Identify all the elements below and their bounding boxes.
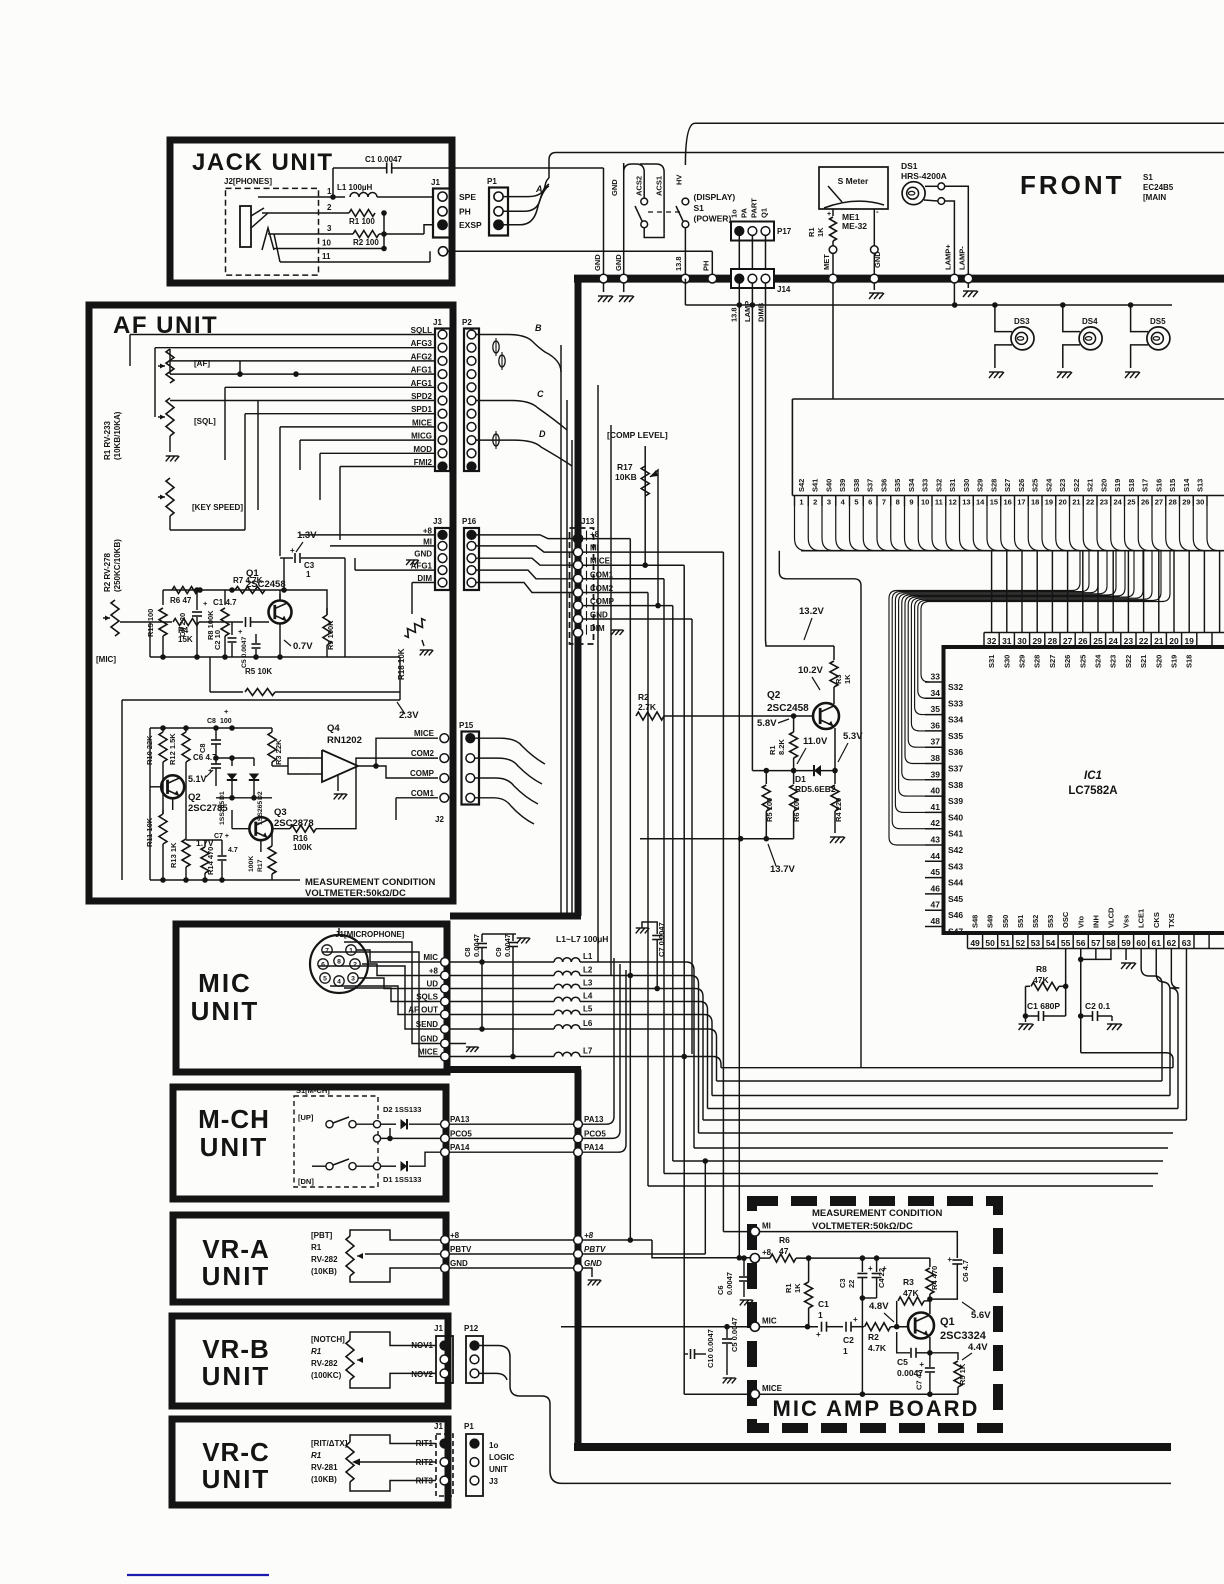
wire jack pin 3 [268, 233, 353, 235]
svg-text:R16: R16 [293, 834, 308, 843]
capacitor C5 0.0047 [252, 643, 261, 645]
resistor R13 1K [182, 839, 190, 867]
wire MI internal [760, 1232, 958, 1258]
svg-text:+: + [224, 707, 229, 716]
svg-text:+8: +8 [450, 1231, 460, 1240]
resistor R6 100 [793, 771, 795, 784]
svg-text:(10KB/10KA): (10KB/10KA) [113, 411, 122, 460]
svg-text:MOD: MOD [413, 445, 432, 454]
svg-text:13.8: 13.8 [730, 307, 739, 322]
svg-text:18: 18 [1031, 498, 1039, 507]
svg-text:22: 22 [847, 1280, 856, 1288]
svg-text:LAMP-: LAMP- [958, 246, 967, 270]
svg-text:11.0V: 11.0V [803, 736, 828, 747]
svg-text:J1[MICROPHONE]: J1[MICROPHONE] [335, 930, 405, 939]
pot AF [166, 349, 174, 383]
FRONT border pins VR-A [574, 1236, 583, 1245]
svg-text:GND: GND [450, 1259, 468, 1268]
unit box AF UNIT [89, 305, 453, 901]
svg-text:S16: S16 [1154, 479, 1163, 492]
wire 2.3V rail [122, 699, 400, 701]
ground symbol meter GND [873, 283, 875, 290]
wire J14 pin3 DIMB down [765, 283, 767, 330]
switch UP [326, 1121, 333, 1128]
svg-text:S22: S22 [1072, 479, 1081, 492]
svg-text:S42: S42 [948, 845, 963, 855]
FRONT board left border upper [575, 275, 582, 916]
svg-text:R1 RV-233: R1 RV-233 [103, 420, 112, 460]
svg-text:S39: S39 [838, 479, 847, 492]
svg-text:S26: S26 [1063, 655, 1072, 668]
svg-text:L1~L7 100µH: L1~L7 100µH [556, 934, 608, 944]
wire COM2 row AF [345, 758, 438, 829]
wire P16 AFG1 to J13 [476, 570, 574, 579]
svg-text:C8: C8 [463, 947, 472, 957]
svg-text:39: 39 [931, 769, 941, 779]
wire PBTV row [583, 1253, 706, 1255]
wire PA14 riser [583, 970, 626, 1152]
svg-text:S19: S19 [1170, 655, 1179, 668]
svg-text:S29: S29 [976, 479, 985, 492]
svg-text:R1: R1 [768, 745, 777, 755]
svg-text:(10KB): (10KB) [311, 1267, 337, 1276]
wire J13 MI [583, 551, 724, 553]
svg-text:R5 1K: R5 1K [958, 1363, 967, 1385]
svg-text:+: + [827, 211, 831, 218]
wire Q3 base [232, 828, 249, 830]
wire bus line 1 [721, 1067, 1173, 1069]
svg-text:GND: GND [414, 550, 432, 559]
wire DIM row [412, 582, 435, 584]
resistor R1 100 [349, 210, 375, 217]
svg-text:C8: C8 [207, 718, 216, 725]
resistor R15 100 [162, 590, 164, 605]
svg-text:2: 2 [813, 498, 817, 507]
svg-text:S27: S27 [1003, 479, 1012, 492]
resistor R4 470 [925, 1257, 930, 1259]
svg-text:OSC: OSC [1061, 911, 1070, 928]
connector J14 restamp [731, 269, 774, 288]
svg-text:S27: S27 [1048, 655, 1057, 668]
svg-text:34: 34 [931, 688, 941, 698]
wire lower top rail [150, 727, 272, 729]
svg-text:1: 1 [799, 498, 803, 507]
svg-text:RIT1: RIT1 [416, 1439, 434, 1448]
wire COM1 column to bus9 [663, 579, 665, 1174]
svg-text:S42: S42 [797, 479, 806, 492]
wire Q1 emitter [929, 1337, 931, 1353]
svg-text:2SC3324: 2SC3324 [940, 1330, 987, 1342]
svg-text:AFG2: AFG2 [411, 352, 433, 361]
unit box JACK UNIT [170, 140, 452, 283]
svg-text:25: 25 [1127, 498, 1135, 507]
svg-text:S50: S50 [1001, 915, 1010, 928]
svg-text:S18: S18 [1185, 655, 1194, 668]
svg-text:R1: R1 [311, 1451, 322, 1460]
svg-text:L1 100µH: L1 100µH [337, 183, 373, 192]
svg-text:1: 1 [818, 1310, 823, 1320]
svg-text:UNIT: UNIT [202, 1261, 271, 1291]
wire +8 row to MIC AMP [583, 1239, 652, 1241]
svg-text:23: 23 [1124, 636, 1134, 646]
ground Q4 [337, 775, 339, 791]
svg-text:P16: P16 [462, 517, 477, 526]
svg-text:S39: S39 [948, 796, 963, 806]
svg-text:R2 RV-278: R2 RV-278 [103, 552, 112, 592]
wire A riser [549, 153, 1224, 179]
svg-text:3: 3 [351, 976, 355, 983]
svg-text:ME-32: ME-32 [842, 221, 867, 231]
svg-text:S25: S25 [1031, 479, 1040, 492]
wire pin10 junction [383, 213, 385, 249]
svg-text:S32: S32 [934, 479, 943, 492]
svg-text:VR-B: VR-B [202, 1334, 270, 1364]
svg-text:61: 61 [1152, 938, 1162, 948]
wires pots to J1 AF [130, 334, 435, 336]
ferrite beads P2 [493, 341, 499, 353]
wire jack pin 10 [274, 248, 384, 250]
transistor Q1 2SC3324 [908, 1313, 934, 1339]
svg-text:C2 10: C2 10 [213, 630, 222, 650]
svg-text:2SC2458: 2SC2458 [246, 579, 286, 590]
wire M-CH common [356, 1123, 373, 1125]
svg-text:C7 47: C7 47 [915, 1370, 924, 1390]
svg-text:59: 59 [1121, 938, 1131, 948]
svg-text:R2: R2 [868, 1332, 879, 1342]
svg-text:PCO5: PCO5 [584, 1129, 606, 1138]
svg-text:[KEY SPEED]: [KEY SPEED] [192, 503, 243, 512]
svg-text:DS4: DS4 [1082, 317, 1098, 326]
svg-text:UNIT: UNIT [191, 996, 260, 1026]
wire Q1 collector [929, 1299, 931, 1314]
svg-text:S31: S31 [987, 655, 996, 668]
wire bus line 3 [712, 1095, 1170, 1097]
ground DIM pin [611, 629, 623, 631]
svg-text:DIM: DIM [417, 574, 432, 583]
ground C8 C9 rail [513, 933, 516, 935]
svg-text:J1: J1 [433, 318, 442, 327]
svg-text:A: A [535, 184, 543, 194]
svg-text:22: 22 [1086, 498, 1094, 507]
wire LCE1 pin 60 arc [1141, 949, 1162, 1082]
wire jack pin 11 [280, 261, 430, 263]
svg-text:L1: L1 [583, 952, 593, 961]
svg-text:S1: S1 [694, 203, 705, 213]
svg-text:PA: PA [740, 208, 749, 218]
wire Q2 base [664, 715, 813, 717]
resistor R3 22K AF [268, 732, 276, 762]
wire Q1 top rail [163, 589, 310, 591]
svg-text:S18: S18 [1127, 479, 1136, 492]
resistor R12 1.5K [182, 732, 190, 762]
wire bus line 4 [708, 1108, 1179, 1110]
svg-text:C5 0.0047: C5 0.0047 [241, 636, 248, 668]
svg-text:11: 11 [322, 252, 331, 261]
svg-text:57: 57 [1091, 938, 1101, 948]
wire +8 column [629, 539, 631, 1240]
svg-text:1: 1 [306, 570, 311, 579]
svg-text:(100KC): (100KC) [311, 1371, 342, 1380]
wire diode rail [216, 757, 254, 759]
svg-text:S40: S40 [824, 479, 833, 492]
display pin curves to bus [795, 506, 807, 551]
wire emitter to R5 [930, 1353, 958, 1360]
connector J2 AF [440, 734, 449, 743]
capacitor C7 47 internal [929, 1353, 931, 1367]
svg-text:L6: L6 [583, 1019, 593, 1028]
svg-text:60: 60 [1136, 938, 1146, 948]
svg-text:R6 47: R6 47 [170, 596, 192, 605]
svg-text:S28: S28 [1033, 655, 1042, 668]
svg-text:Q3: Q3 [274, 807, 287, 818]
svg-text:1: 1 [843, 1346, 848, 1356]
svg-text:J1: J1 [434, 1422, 443, 1431]
svg-text:S21: S21 [1086, 479, 1095, 492]
svg-text:46: 46 [931, 883, 941, 893]
wire bus line 9 [664, 1173, 1158, 1175]
svg-text:UNIT: UNIT [202, 1361, 271, 1391]
svg-text:10: 10 [921, 498, 929, 507]
svg-text:30: 30 [1196, 498, 1204, 507]
svg-text:D1: D1 [219, 791, 226, 800]
ground J3 GND stub [406, 559, 418, 561]
wire PCO5 riser [583, 964, 620, 1138]
dashed switch box S1 M-CH [294, 1096, 378, 1187]
svg-text:S37: S37 [948, 764, 963, 774]
svg-text:+: + [882, 1264, 887, 1273]
svg-text:C1: C1 [818, 1299, 829, 1309]
svg-text:P17: P17 [777, 227, 792, 236]
wire top rail to FRONT [685, 123, 1224, 165]
wire bus line 7 [694, 1147, 1168, 1149]
svg-text:6: 6 [321, 962, 325, 969]
svg-text:MICG: MICG [411, 432, 432, 441]
capacitor C2 10 [231, 622, 233, 635]
unit box M-CH UNIT [173, 1087, 446, 1199]
svg-text:5.6V: 5.6V [971, 1310, 991, 1321]
wire Vto pin 56 [1080, 949, 1082, 1053]
svg-text:C5: C5 [897, 1357, 908, 1367]
svg-text:HV: HV [675, 175, 684, 185]
svg-text:0.0047: 0.0047 [503, 934, 512, 957]
svg-text:VOLTMETER:50kΩ/DC: VOLTMETER:50kΩ/DC [812, 1221, 913, 1232]
svg-text:AFG3: AFG3 [411, 339, 433, 348]
wire bus line 6 [699, 1132, 1174, 1134]
svg-text:15: 15 [990, 498, 998, 507]
wire 13.8 column J14pin1 [738, 305, 740, 1258]
svg-text:R17: R17 [257, 859, 264, 872]
wire P16 DIM to J13 [476, 583, 574, 593]
IC1 top pin cells 32-19 [984, 632, 1224, 634]
svg-text:S45: S45 [948, 894, 963, 904]
svg-text:LC7582A: LC7582A [1068, 785, 1117, 797]
wire L2 to bus6 [580, 976, 699, 1134]
svg-text:SPD1: SPD1 [411, 405, 432, 414]
svg-text:44: 44 [931, 851, 941, 861]
svg-text:25: 25 [1093, 636, 1103, 646]
connector J1 jack [433, 189, 452, 238]
svg-text:43: 43 [931, 835, 941, 845]
M-CH unit pins [441, 1120, 450, 1129]
wire P12 NOV1 out [479, 1346, 1171, 1484]
resistor R1 8.2K [793, 716, 795, 732]
svg-text:S14: S14 [1182, 478, 1191, 492]
svg-text:J13: J13 [581, 517, 595, 526]
svg-text:R3: R3 [903, 1277, 914, 1287]
svg-text:+: + [919, 1360, 924, 1369]
svg-text:C1 680P: C1 680P [1027, 1001, 1060, 1011]
svg-text:EC24B5: EC24B5 [1143, 183, 1174, 192]
wire DS1 to LAMP+ [945, 201, 955, 274]
wire corridor line 611 [610, 425, 612, 976]
svg-text:Q1: Q1 [940, 1316, 955, 1328]
wire rail feeding ACS switches [624, 164, 645, 198]
FRONT border pins PA13 PCO5 PA14 [574, 1120, 583, 1129]
svg-text:1: 1 [349, 948, 353, 955]
svg-text:R3 22K: R3 22K [274, 739, 283, 765]
svg-text:4.7K: 4.7K [868, 1343, 887, 1353]
svg-text:+: + [853, 1315, 858, 1324]
feedthrough circle EXSP [438, 247, 447, 256]
svg-text:S23: S23 [1109, 655, 1118, 668]
capacitor C6 4.7 internal [952, 1259, 962, 1261]
svg-text:S25: S25 [1078, 655, 1087, 668]
svg-text:R18 10K: R18 10K [397, 648, 406, 680]
svg-text:MEASUREMENT CONDITION: MEASUREMENT CONDITION [812, 1208, 943, 1219]
svg-text:R1 100: R1 100 [349, 217, 375, 226]
svg-text:S41: S41 [948, 829, 963, 839]
svg-text:PART: PART [750, 198, 759, 218]
connector J14 [731, 269, 774, 288]
svg-text:AFG1: AFG1 [411, 366, 433, 375]
resistor R2 100 [353, 231, 379, 238]
resistor R1 1K meter [832, 209, 834, 216]
svg-text:RIT3: RIT3 [416, 1477, 434, 1486]
svg-text:Q2: Q2 [767, 690, 781, 701]
svg-text:S26: S26 [1017, 479, 1026, 492]
switch ACS1 bracket [644, 228, 664, 238]
wire J13 COMP [583, 605, 673, 607]
svg-text:LCE1: LCE1 [1137, 909, 1146, 928]
svg-text:26: 26 [1141, 498, 1149, 507]
svg-text:CKS: CKS [1152, 912, 1161, 928]
switch ACS2 [641, 198, 648, 205]
svg-text:51: 51 [1001, 938, 1011, 948]
svg-text:28: 28 [1168, 498, 1176, 507]
svg-text:2: 2 [327, 203, 332, 212]
svg-text:R9 100K: R9 100K [326, 620, 335, 650]
wire P16 GND to J13 [476, 558, 574, 565]
svg-text:C8: C8 [198, 743, 207, 753]
svg-text:AFG1: AFG1 [411, 562, 433, 571]
svg-text:L3: L3 [583, 979, 593, 988]
svg-text:+: + [203, 599, 208, 608]
svg-text:GND: GND [590, 611, 608, 620]
wire bundle A from P1 [503, 178, 549, 197]
svg-text:C7 +: C7 + [214, 833, 229, 840]
svg-text:MIC: MIC [762, 1317, 777, 1326]
svg-text:RN1202: RN1202 [327, 735, 362, 746]
svg-text:MI: MI [423, 537, 432, 546]
wire J14 pin2 down [751, 283, 753, 305]
svg-text:23: 23 [1100, 498, 1108, 507]
svg-text:ACS1: ACS1 [655, 176, 664, 196]
svg-text:R8: R8 [1036, 964, 1047, 974]
svg-text:29: 29 [1032, 636, 1042, 646]
svg-text:63: 63 [1182, 938, 1192, 948]
ground symbol GND1 below bus [603, 283, 605, 292]
display pin row 1-29 [792, 495, 1224, 497]
svg-text:54: 54 [1046, 938, 1056, 948]
svg-text:27: 27 [1063, 636, 1073, 646]
ground Vss pin 59 [1125, 949, 1127, 961]
svg-text:AFG1: AFG1 [411, 379, 433, 388]
pot MIC [111, 600, 119, 636]
wire D out [476, 440, 572, 466]
svg-text:MICE: MICE [762, 1384, 783, 1393]
svg-text:14: 14 [976, 498, 985, 507]
unit box VR-B UNIT [172, 1316, 448, 1406]
switch S1 POWER [682, 198, 689, 205]
svg-text:S37: S37 [866, 479, 875, 492]
svg-text:R13 1K: R13 1K [169, 842, 178, 868]
svg-text:4.4V: 4.4V [968, 1342, 988, 1353]
svg-text:C1 4.7: C1 4.7 [213, 598, 237, 607]
svg-text:S44: S44 [948, 878, 963, 888]
svg-text:NOV2: NOV2 [411, 1370, 433, 1379]
diode D1 RD5.6EB2 [814, 765, 821, 776]
svg-text:COM2: COM2 [411, 749, 435, 758]
svg-text:LAMP+: LAMP+ [944, 244, 953, 270]
svg-text:5: 5 [854, 498, 858, 507]
switch DN [326, 1163, 333, 1170]
transistor Q2 2SC2458 [833, 687, 835, 704]
wire MI row AF [330, 545, 435, 547]
wire PA13 riser [583, 958, 614, 1124]
svg-text:45: 45 [931, 867, 941, 877]
svg-text:S Meter: S Meter [838, 176, 869, 186]
svg-text:48: 48 [931, 916, 941, 926]
svg-text:Q2: Q2 [188, 792, 201, 803]
resistor R16 100K [272, 828, 290, 830]
wire GND2 vertical [623, 163, 625, 274]
wire MIC internal [805, 1324, 811, 1330]
svg-text:R10 22K: R10 22K [145, 735, 154, 765]
svg-text:0.0047: 0.0047 [725, 1272, 734, 1295]
svg-text:PH: PH [459, 207, 471, 217]
svg-text:29: 29 [1182, 498, 1190, 507]
unit box VR-A UNIT [173, 1215, 446, 1302]
svg-text:C1 0.0047: C1 0.0047 [365, 155, 402, 164]
svg-text:PA13: PA13 [450, 1115, 470, 1124]
wire PBTV riser to bus8 [704, 1161, 706, 1254]
wire Q2 emitter [834, 728, 836, 771]
resistor R4 15K [120, 621, 172, 623]
svg-text:S47: S47 [948, 927, 963, 937]
FRONT notch bottom edge [450, 1066, 581, 1073]
svg-text:40: 40 [931, 786, 941, 796]
svg-text:L4: L4 [583, 992, 593, 1001]
svg-text:21: 21 [1072, 498, 1080, 507]
svg-text:D2 1SS133: D2 1SS133 [383, 1105, 421, 1114]
svg-text:MICE: MICE [590, 557, 611, 566]
resistor R4 220 [834, 771, 836, 784]
svg-text:GND: GND [873, 251, 882, 268]
IC1 left pins 33-48 [925, 681, 944, 683]
svg-text:4.8V: 4.8V [869, 1301, 889, 1312]
capacitor C3 1 [283, 558, 285, 590]
svg-text:4: 4 [337, 979, 341, 986]
